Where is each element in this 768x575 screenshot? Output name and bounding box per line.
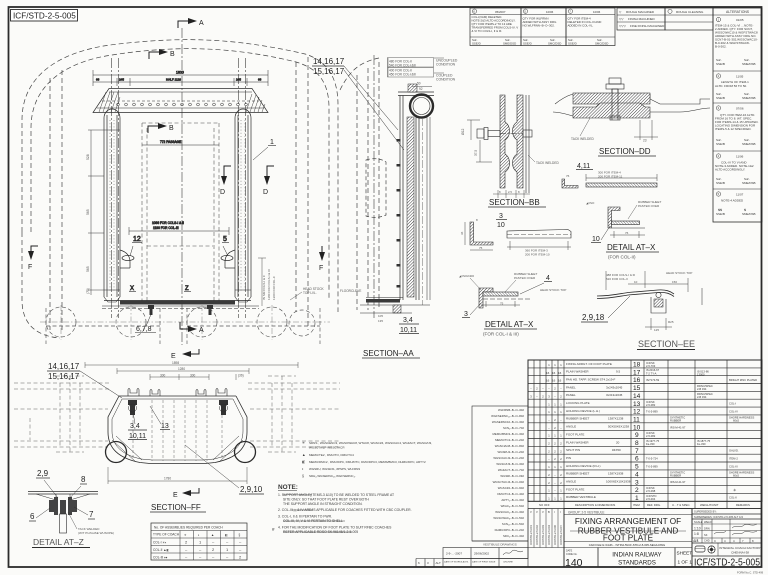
svg-text:300: 300 — [160, 373, 166, 377]
svg-text:ITEM: ITEM — [633, 503, 640, 507]
svg-text:2-B 334: 2-B 334 — [697, 395, 707, 399]
bolt assembly — [477, 128, 532, 140]
svg-text:SPLIT PIN: SPLIT PIN — [566, 448, 580, 452]
svg-text:16: 16 — [552, 379, 556, 383]
svg-text:CONDITION: CONDITION — [436, 63, 456, 67]
head stock top lvl note right — [290, 287, 325, 300]
svg-text:2-5-098: 2-5-098 — [646, 489, 656, 493]
svg-text:ICF/STD-2-5-002: ICF/STD-2-5-002 — [535, 525, 539, 545]
svg-text:◢ ISO: ◢ ISO — [586, 201, 595, 205]
arrow B lower — [148, 123, 174, 133]
bolt shaft — [611, 89, 613, 120]
label 7 Z — [74, 507, 95, 519]
svg-text:66: 66 — [96, 78, 100, 82]
svg-text:2.5: 2.5 — [508, 190, 512, 194]
svg-text:RUBBER: RUBBER — [670, 474, 681, 478]
svg-text:B: B — [548, 510, 550, 514]
svg-text:◐: ◐ — [302, 467, 304, 471]
alt entry 3 — [716, 106, 720, 110]
svg-text:200 FOR ITEM-10: 200 FOR ITEM-10 — [525, 253, 550, 257]
svg-text:1:10: 1:10 — [694, 527, 701, 531]
svg-text:MEMU/TE2 , DMU/TO, DMU/TC4: MEMU/TE2 , DMU/TO, DMU/TC4 — [309, 453, 354, 457]
svg-text:FOOT PLATE: FOOT PLATE — [566, 432, 584, 436]
svg-text:DETAIL AT–Z: DETAIL AT–Z — [33, 537, 84, 547]
right column — [235, 109, 251, 302]
qty cells — [530, 363, 562, 501]
svg-text:SSE/D: SSE/D — [568, 42, 577, 46]
svg-text:ICF/STD-2-5-005: ICF/STD-2-5-005 — [13, 12, 76, 21]
svg-text:5: 5 — [635, 464, 639, 471]
svg-text:HOLDING DEVICE (R.H.): HOLDING DEVICE (R.H.) — [566, 464, 601, 468]
svg-text:SSE/D: SSE/D — [472, 42, 481, 46]
wheel 3 — [187, 307, 217, 337]
svg-text:IS/7173-59: IS/7173-59 — [646, 378, 660, 382]
label 14,16,17/15,16,17 FF — [47, 362, 122, 398]
svg-text:ANGLE: ANGLE — [566, 425, 576, 429]
svg-text:WGSCZJ3–B–O–302: WGSCZJ3–B–O–302 — [496, 462, 524, 466]
svg-text:SECTION–FF: SECTION–FF — [151, 503, 201, 512]
svg-text:3. COL-I, II & III PERTAIN TO: 3. COL-I, II & III PERTAIN TO FWR. — [278, 515, 332, 519]
svg-text:15: 15 — [633, 385, 641, 392]
svg-text:IN SM COLS-I & II: IN SM COLS-I & II — [262, 275, 266, 300]
svg-text:SCN₂–B–O–702: SCN₂–B–O–702 — [503, 426, 524, 430]
svg-text:50X50X6X1238: 50X50X6X1238 — [608, 425, 629, 429]
svg-text:10: 10 — [497, 222, 505, 229]
svg-text:SSE/B: SSE/B — [716, 142, 725, 146]
label 2,9 Z — [36, 469, 58, 498]
svg-text:ICF/STD-2-5-006: ICF/STD-2-5-006 — [553, 525, 557, 545]
svg-text:(75): (75) — [86, 288, 90, 294]
left dim chain of elevation — [88, 130, 120, 295]
header row — [528, 500, 762, 502]
svg-text:SME/DSD: SME/DSD — [503, 42, 516, 46]
svg-text:WGSCIAC8–B–O–802: WGSCIAC8–B–O–802 — [495, 444, 525, 448]
arrow F left — [28, 246, 38, 271]
svg-text:LOCKING PLATE: LOCKING PLATE — [566, 401, 590, 405]
cleaning symbol box — [665, 8, 713, 30]
underframe dashed continuation left — [14, 376, 110, 452]
svg-text:WFAC₈–B–O–502: WFAC₈–B–O–502 — [501, 504, 525, 508]
svg-text:COL-I ✳◐: COL-I ✳◐ — [153, 540, 167, 544]
svg-text:2,9,10: 2,9,10 — [240, 485, 263, 494]
svg-text:CONDITION: CONDITION — [436, 78, 456, 82]
svg-text:1190 FOR COL-III: 1190 FOR COL-III — [153, 226, 179, 230]
svg-text:SME/DSB: SME/DSB — [742, 212, 756, 216]
wheels dashed — [46, 307, 320, 344]
svg-text:NOTE:: NOTE: — [278, 484, 298, 491]
dims — [634, 120, 658, 140]
flat rubber bar — [586, 183, 657, 187]
svg-text:75: 75 — [479, 246, 483, 250]
corrugation dashed verticals — [133, 400, 222, 461]
foot plate S-profile — [597, 290, 674, 296]
svg-text:6,7,8: 6,7,8 — [136, 326, 152, 333]
svg-text:WGSCTACJ4–B–O–002: WGSCTACJ4–B–O–002 — [493, 480, 525, 484]
svg-text:2-5-004: 2-5-004 — [646, 497, 656, 501]
label 13 FF — [150, 406, 170, 430]
svg-text:16: 16 — [633, 377, 641, 384]
svg-text:10/06: 10/06 — [593, 10, 601, 14]
clips on top edge — [128, 389, 139, 397]
svg-text:SME/DSB: SME/DSB — [742, 96, 756, 100]
svg-text:HEAD STOCK TOP: HEAD STOCK TOP — [666, 271, 692, 275]
svg-text:CHD: CHD — [704, 539, 710, 543]
svg-text:FLOORCLEVE: FLOORCLEVE — [340, 289, 361, 293]
svg-text:7: 7 — [89, 510, 94, 519]
wheel 1 — [46, 307, 76, 337]
side angled struts — [112, 436, 142, 462]
svg-text:WGSCIAC₂–B–O–302: WGSCIAC₂–B–O–302 — [495, 510, 524, 514]
label 2,9,10 FF — [185, 445, 264, 494]
coach outer dashed profile — [22, 40, 338, 312]
svg-text:SECTION–BB: SECTION–BB — [489, 198, 540, 207]
column centerlines — [111, 58, 113, 318]
foot plate brackets on columns — [120, 250, 235, 268]
svg-text:TACK WELDED: TACK WELDED — [536, 161, 559, 165]
svg-text:TACK WELDED: TACK WELDED — [571, 137, 594, 141]
svg-text:WELD: WELD — [704, 520, 712, 524]
roof curve into section — [340, 58, 379, 90]
svg-text:T-2 TY-A: T-2 TY-A — [646, 371, 657, 375]
svg-text:T-0-5-899: T-0-5-899 — [646, 464, 658, 468]
arrow A top — [178, 18, 204, 28]
svg-text:5: 5 — [223, 236, 227, 243]
alt entry 1 — [716, 17, 720, 21]
svg-text:SDC₂–B–O–302: SDC₂–B–O–302 — [503, 534, 524, 538]
revision box 5 — [521, 8, 566, 46]
headstock lines — [102, 305, 259, 307]
svg-text:16: 16 — [552, 371, 556, 375]
svg-text:FOOT PLATE: FOOT PLATE — [603, 534, 654, 543]
svg-text:SITE ONLY. SO THAT FOOT PLATE: SITE ONLY. SO THAT FOOT PLATE REST OVER … — [283, 498, 369, 502]
svg-text:SK: SK — [704, 533, 708, 537]
svg-text:NO.WLFRNN–B–O–302.: NO.WLFRNN–B–O–302. — [523, 24, 555, 28]
svg-text:T-0-5-899: T-0-5-899 — [646, 410, 658, 414]
upper hatched plate — [573, 94, 710, 104]
svg-text:COL-I: COL-I — [729, 401, 736, 405]
bottom-left signature rows — [416, 541, 528, 567]
svg-text:100X65X10X1938: 100X65X10X1938 — [606, 480, 631, 484]
svg-text:PLAIN WASHER: PLAIN WASHER — [566, 440, 589, 444]
svg-text:WGFACT–B–O–702: WGFACT–B–O–702 — [498, 468, 525, 472]
svg-text:565: 565 — [86, 266, 90, 272]
svg-text:1 OF 1: 1 OF 1 — [678, 560, 693, 565]
SECTION-DD title — [598, 147, 656, 156]
772 passage dim — [142, 144, 219, 146]
svg-text:3: 3 — [464, 311, 468, 318]
svg-text:ROUGH CLEANING: ROUGH CLEANING — [676, 10, 704, 14]
svg-text:▲: ▲ — [302, 453, 306, 457]
svg-text:ARTY₂–B–O–302: ARTY₂–B–O–302 — [501, 498, 524, 502]
svg-text:U…T & SPEC.: U…T & SPEC. — [672, 503, 691, 507]
svg-text:SCN₁₀–B–O–502: SCN₁₀–B–O–502 — [502, 522, 524, 526]
svg-text:60±5: 60±5 — [733, 474, 739, 478]
svg-text:D: D — [220, 189, 225, 196]
svg-text:13000: 13000 — [697, 373, 705, 377]
bogie outline left — [46, 308, 160, 344]
rail lines — [28, 491, 98, 493]
revision box 6 — [470, 8, 521, 46]
svg-text:ALTD. FROM 56 TO 50.: ALTD. FROM 56 TO 50. — [715, 84, 747, 88]
svg-text:DMU/TC4–B–O–402: DMU/TC4–B–O–402 — [497, 492, 524, 496]
svg-text:WGSCIACJ2–B–O–202: WGSCIACJ2–B–O–202 — [493, 456, 524, 460]
svg-text:DETAIL AT–X: DETAIL AT–X — [485, 320, 534, 329]
svg-text:E: E — [173, 492, 178, 499]
svg-text:INDIAN RAILWAY: INDIAN RAILWAY — [612, 552, 661, 559]
svg-text:WGSRU2–B–O–202: WGSRU2–B–O–202 — [497, 450, 524, 454]
drg number box top-left — [11, 10, 78, 22]
svg-text:7: 7 — [635, 448, 639, 455]
plate end hatch ticks — [99, 92, 265, 112]
svg-text:RUBBER: RUBBER — [670, 419, 681, 423]
svg-text:66: 66 — [258, 78, 262, 82]
svg-text:WLFRNB–B–O–302: WLFRNB–B–O–302 — [498, 408, 524, 412]
svg-text:PAN HD. TAPP. SCREW ST4.2x19-F: PAN HD. TAPP. SCREW ST4.2x19-F — [566, 378, 615, 382]
svg-text:NO OFF: NO OFF — [539, 503, 550, 507]
plate lines down — [525, 95, 527, 193]
svg-text:ICF/STD-2-5-007: ICF/STD-2-5-007 — [559, 525, 563, 545]
svg-text:No. OF ASSEMBLIES REQUIRED PER: No. OF ASSEMBLIES REQUIRED PER COACH — [154, 525, 223, 529]
svg-text:1387X1238: 1387X1238 — [608, 417, 624, 421]
bottom foot plate section — [366, 299, 400, 303]
dims — [606, 271, 688, 330]
svg-text:16: 16 — [558, 371, 562, 375]
svg-text:4: 4 — [546, 275, 550, 282]
corrugated plate section outer strip — [500, 95, 510, 188]
svg-text:140: 140 — [565, 557, 583, 569]
revision box 7 — [566, 8, 615, 46]
svg-text:HOLDING DEVICE (L.H.): HOLDING DEVICE (L.H.) — [566, 409, 600, 413]
main column verticals — [630, 360, 632, 509]
svg-text:WEIGHT/UNIT: WEIGHT/UNIT — [700, 503, 719, 507]
dims above FF — [85, 362, 298, 380]
svg-text:14: 14 — [633, 393, 641, 400]
wheel 4 — [257, 307, 287, 337]
svg-text:DATE OF WORKS ALTN.: DATE OF WORKS ALTN. — [444, 560, 469, 563]
svg-text:SUPERSEDES: ICF/STD-2-5-005 A: SUPERSEDES: ICF/STD-2-5-005 ALT C/4 — [694, 515, 743, 519]
svg-text:ROUGH MACHINED: ROUGH MACHINED — [626, 10, 655, 14]
svg-text:PLAIN WASHER: PLAIN WASHER — [566, 370, 589, 374]
svg-text:16: 16 — [546, 371, 550, 375]
svg-text:772 PASSAGE: 772 PASSAGE — [160, 140, 181, 144]
svg-text:COL-IV: COL-IV — [729, 409, 738, 413]
svg-text:10,11: 10,11 — [129, 433, 146, 440]
svg-text:10: 10 — [634, 280, 638, 284]
svg-text:50: 50 — [417, 82, 421, 86]
svg-text:V: V — [542, 510, 544, 514]
svg-text:75: 75 — [500, 302, 504, 306]
svg-text:HEAD STOCK TOP: HEAD STOCK TOP — [540, 288, 566, 292]
left curve of plates — [553, 94, 573, 116]
svg-text:2-5-082: 2-5-082 — [646, 403, 656, 407]
svg-text:1. SUPPORT ANGLE(ITEMS-3 &10): 1. SUPPORT ANGLE(ITEMS-3 &10) TO BE WELD… — [278, 493, 394, 497]
svg-text:135: 135 — [378, 319, 383, 323]
svg-text:2,9,18: 2,9,18 — [582, 313, 605, 322]
svg-text:05/2007: 05/2007 — [495, 10, 506, 14]
svg-text:SSE/D: SSE/D — [523, 42, 532, 46]
svg-text:1780: 1780 — [164, 477, 171, 481]
svg-text:ADDED IN COL-VL.: ADDED IN COL-VL. — [568, 24, 594, 28]
svg-text:14,16,17: 14,16,17 — [313, 57, 345, 66]
svg-text:Z: Z — [185, 286, 189, 292]
svg-text:92: 92 — [419, 87, 423, 91]
alt entry 5 — [716, 192, 720, 196]
svg-text:SSE/B: SSE/B — [716, 212, 725, 216]
bolt nut on top — [606, 78, 624, 94]
svg-text:13: 13 — [633, 401, 641, 408]
svg-text:(FOR COL-II): (FOR COL-II) — [608, 255, 636, 260]
svg-text:GROUP: 2-5 VESTIBULE: GROUP: 2-5 VESTIBULE — [568, 511, 605, 515]
svg-text:11: 11 — [633, 417, 640, 424]
svg-text:1898: 1898 — [172, 361, 179, 365]
svg-text:REMARKS: REMARKS — [736, 503, 750, 507]
flat bar item 3 — [507, 230, 571, 239]
buffer circle — [289, 310, 315, 336]
svg-text:3,4: 3,4 — [130, 423, 140, 430]
svg-text:6: 6 — [635, 456, 639, 463]
svg-text:76: 76 — [625, 231, 629, 235]
L angle — [470, 222, 493, 245]
svg-text:Fa-330: Fa-330 — [646, 442, 655, 446]
coach end dashed verticals — [356, 75, 358, 310]
svg-text:WGSRU, WGSRJ1, #PSPS, WLFRN9: WGSRU, WGSRJ1, #PSPS, WLFRN9 — [309, 467, 360, 471]
svg-text:MEMU/BMC3–B–O–302: MEMU/BMC3–B–O–302 — [493, 432, 525, 436]
svg-text:11/05: 11/05 — [736, 75, 744, 79]
SECTION-AA title — [362, 349, 420, 358]
header labels — [539, 503, 750, 507]
vestibule frame bolt marks — [397, 139, 401, 288]
svg-text:36: 36 — [460, 231, 464, 235]
coach left-bottom dashed curve — [22, 232, 60, 338]
svg-text:520 FOR COL-II: 520 FOR COL-II — [606, 277, 628, 281]
tack welded note BB — [528, 155, 559, 165]
right end vertical — [701, 288, 703, 305]
svg-text:SME/DSB: SME/DSB — [742, 181, 756, 185]
svg-text:2,9: 2,9 — [37, 469, 49, 478]
svg-text:1: 1 — [270, 139, 274, 146]
svg-text:SSE/B: SSE/B — [716, 181, 725, 185]
coach inner dashed profile — [31, 49, 329, 300]
svg-text:17: 17 — [633, 369, 641, 376]
svg-text:15,16,17: 15,16,17 — [313, 67, 345, 76]
side wall dashed verticals — [49, 78, 51, 330]
arrow B upper — [149, 49, 175, 59]
left column — [104, 109, 120, 302]
corrugated plate section inner strip — [513, 95, 524, 188]
svg-text:CODE No.: CODE No. — [566, 553, 578, 556]
svg-text:COL-II ▲◧: COL-II ▲◧ — [153, 548, 169, 552]
svg-text:29/06/2002: 29/06/2002 — [474, 552, 489, 556]
svg-text:T-0-5-724: T-0-5-724 — [646, 457, 658, 461]
svg-text:Ø12: Ø12 — [461, 128, 465, 135]
svg-text:Fe-330: Fe-330 — [697, 442, 706, 446]
svg-text:SDH₂,WGSERNC₁₀,WGFSERNC₄.: SDH₂,WGSERNC₁₀,WGFSERNC₄. — [309, 474, 356, 478]
svg-text:01/05: 01/05 — [736, 18, 744, 22]
svg-text:V: V — [530, 510, 532, 514]
svg-text:11/07: 11/07 — [736, 193, 744, 197]
wheel 2 — [116, 307, 146, 337]
svg-text:1180 FOR COLS-I & III: 1180 FOR COLS-I & III — [267, 269, 271, 300]
svg-text:8: 8 — [635, 440, 639, 447]
svg-text:4,11: 4,11 — [577, 163, 590, 170]
SECTION-FF title — [150, 503, 206, 512]
bolt details under plate — [148, 305, 213, 315]
label 6,7,8 — [135, 312, 156, 333]
svg-text:1: 1 — [635, 495, 639, 502]
svg-text:E: E — [171, 353, 176, 360]
bracket below — [651, 297, 666, 313]
svg-text:#4X50: #4X50 — [612, 448, 621, 452]
vertical plate lines — [399, 96, 401, 301]
svg-text:9.5: 9.5 — [616, 370, 621, 374]
svg-text:ICF/STD-2-5-001: ICF/STD-2-5-001 — [529, 525, 533, 545]
svg-text:HALF 1128: HALF 1128 — [166, 78, 181, 82]
dim texts for section AA — [340, 58, 458, 324]
svg-text:ITEMS-5 & 12 SPECIFIED.: ITEMS-5 & 12 SPECIFIED. — [715, 127, 752, 131]
svg-text:SMC/DSD: SMC/DSD — [595, 42, 608, 46]
svg-text:FINISH MACHINED: FINISH MACHINED — [628, 17, 656, 21]
svg-text:◧: ◧ — [302, 460, 306, 464]
svg-text:WGSCTA/LP WGSCTACR: WGSCTA/LP WGSCTACR — [309, 446, 345, 450]
svg-text:10,11: 10,11 — [400, 327, 417, 334]
svg-text:FORM No.C. STD-499: FORM No.C. STD-499 — [737, 571, 764, 575]
DETAIL AT-Z title — [32, 537, 90, 548]
svg-text:12: 12 — [133, 236, 141, 243]
dim 1800 top — [93, 70, 268, 86]
svg-text:10: 10 — [592, 236, 600, 243]
label 3,4 / 10,11 under section AA — [399, 317, 419, 334]
svg-text:1387X1938: 1387X1938 — [608, 472, 624, 476]
svg-text:9: 9 — [635, 432, 639, 439]
svg-text:ITEM-2: ITEM-2 — [729, 457, 738, 461]
svg-text:▽▽: ▽▽ — [619, 17, 624, 21]
svg-text:12: 12 — [633, 409, 641, 416]
machining symbols box — [617, 8, 665, 30]
svg-text:DRN: DRN — [704, 527, 710, 531]
ref drg / spec / weight / remarks cells — [646, 361, 757, 501]
label 1 with leader — [253, 139, 276, 160]
svg-text:10: 10 — [633, 424, 641, 431]
label 14,16,17 / 15,16,17 — [312, 57, 404, 150]
svg-text:528: 528 — [86, 154, 90, 160]
svg-text:245: 245 — [119, 78, 124, 82]
svg-text:REF. DRG.: REF. DRG. — [647, 503, 661, 507]
svg-text:1066 FOR COLS-I & II: 1066 FOR COLS-I & II — [152, 221, 184, 225]
svg-text:COL-III: COL-III — [729, 464, 738, 468]
svg-text:NOTE-4 ADDED: NOTE-4 ADDED — [721, 199, 744, 203]
svg-text:SCALE: SCALE — [694, 520, 703, 524]
svg-text:20: 20 — [616, 440, 620, 444]
door dashed outline — [366, 159, 386, 218]
svg-text:14,16,17: 14,16,17 — [48, 362, 80, 371]
alt entry 4 — [716, 154, 720, 158]
svg-text:WGSCWAC₈–B–O–502: WGSCWAC₈–B–O–502 — [493, 516, 524, 520]
svg-text:TOP LVL.: TOP LVL. — [303, 291, 317, 295]
svg-text:16: 16 — [546, 379, 550, 383]
svg-text:SMC/DSD: SMC/DSD — [548, 42, 561, 46]
right lower corner block — [692, 509, 762, 568]
svg-text:F: F — [319, 265, 323, 272]
svg-text:COL-III ♦♦: COL-III ♦♦ — [153, 555, 168, 559]
svg-text:2-9-…-2007: 2-9-…-2007 — [446, 552, 462, 556]
bolt stack — [49, 497, 77, 515]
svg-text:◐: ◐ — [198, 533, 200, 537]
svg-text:◧: ◧ — [225, 533, 228, 537]
svg-text:565: 565 — [86, 209, 90, 215]
underframe dashed continuation right — [248, 376, 340, 452]
svg-text:07/06: 07/06 — [736, 107, 744, 111]
svg-text:2-B 334: 2-B 334 — [697, 387, 707, 391]
